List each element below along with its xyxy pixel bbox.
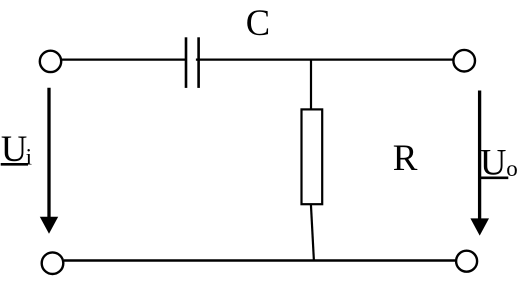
svg-text:R: R (393, 138, 418, 179)
svg-text:i: i (26, 145, 32, 170)
resistor R body (302, 109, 323, 204)
capacitor C right plate (197, 37, 200, 88)
wire: resistor bottom lead to bottom wire (311, 204, 314, 260)
wire: bottom rail (64, 259, 456, 261)
svg-text:C: C (246, 2, 270, 43)
arrow Ui shaft (47, 88, 50, 220)
label Ui underline (1, 163, 28, 166)
terminal bottom-right (456, 251, 477, 272)
svg-text:U: U (480, 141, 506, 182)
arrow Uo head (470, 218, 489, 235)
arrow Uo shaft (478, 91, 481, 222)
wire: resistor top lead from node on top wire (310, 60, 312, 110)
wire: capacitor to top-right terminal (196, 58, 453, 60)
wire: top-left terminal to capacitor (62, 58, 186, 60)
capacitor C left plate (185, 37, 188, 88)
terminal bottom-left (42, 252, 64, 274)
terminal top-left (40, 51, 61, 72)
terminal top-right (453, 50, 475, 72)
arrow Ui head (40, 217, 58, 234)
label Uo underline (481, 177, 508, 180)
svg-text:U: U (1, 128, 27, 169)
